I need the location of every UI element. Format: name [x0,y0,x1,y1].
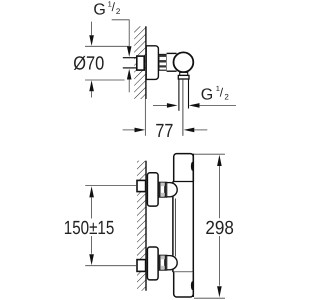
dimension 298 [194,154,234,298]
valve body circle (side view) [174,52,194,72]
escutcheon flange (side view) [146,46,158,80]
union nut lower (front view) [147,247,158,280]
valve inlet body (side view) [167,53,177,71]
in-wall union square (side view) [137,56,144,70]
union nut upper (front view) [147,173,158,206]
collar lower (front view) [158,255,167,270]
svg-text:G: G [93,2,105,19]
boss neck upper (front view) [167,183,171,197]
boss neck lower (front view) [167,256,171,270]
outlet collar upper (side view) [180,72,188,75]
in-wall square lower (front view) [137,260,146,272]
svg-text:Ø70: Ø70 [73,53,104,74]
svg-text:150±15: 150±15 [64,218,115,239]
svg-text:298: 298 [205,218,234,239]
outlet centerline (side view) [182,79,184,136]
label G1/2 top [93,0,121,19]
arrows G1/2 outlet thread [153,103,236,108]
wall face line (side view) [144,26,147,136]
outlet collar lower (side view) [178,75,189,79]
union nut (side view) [159,54,167,70]
mixer top cap (front view) [174,154,194,182]
leader G1/2 top [112,20,132,57]
dimension 77 [123,121,208,142]
svg-text:77: 77 [155,121,173,142]
label G1/2 outlet [201,84,230,103]
arrow G1/2 supply thread bottom [127,69,132,93]
supply pipe (side view) [123,58,138,68]
outlet thread lines (side view) [179,79,189,111]
dimension Ø70 [73,22,129,98]
mixer main body (front view) [170,154,193,297]
svg-text:2: 2 [224,93,229,102]
svg-text:/: / [220,85,224,99]
in-wall square upper (front view) [137,180,146,191]
wall hatching (side view) [134,26,146,99]
collar upper (front view) [158,182,167,197]
mixer bottom cap (front view) [174,272,194,297]
svg-text:G: G [201,87,213,104]
wall face line (front view) [145,161,147,291]
svg-text:2: 2 [116,7,121,16]
dimension 150±15 [64,186,137,266]
wall hatching (front view) [137,161,146,291]
